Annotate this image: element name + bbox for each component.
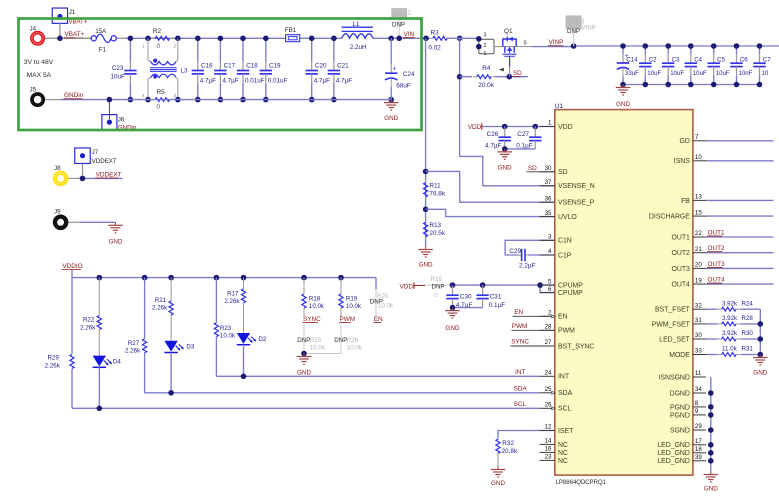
svg-text:4.7µF: 4.7µF [314, 78, 330, 85]
wire [45, 99, 60, 101]
svg-text:EN: EN [558, 314, 568, 321]
svg-text:4.7µF: 4.7µF [336, 78, 352, 85]
svg-text:GND: GND [384, 115, 398, 122]
connector J7 [75, 148, 91, 164]
svg-text:OUT4: OUT4 [672, 282, 691, 289]
capacitor C29 [519, 254, 522, 256]
svg-text:2.26k: 2.26k [224, 298, 240, 305]
junction [423, 169, 429, 175]
svg-text:SGND: SGND [670, 427, 690, 434]
wire VINP cap bank bottom rail [623, 84, 760, 86]
svg-text:R26: R26 [347, 337, 359, 344]
svg-text:C7: C7 [763, 57, 771, 64]
capacitor C7 [759, 46, 761, 54]
wire UVLO [426, 209, 555, 216]
wire [170, 278, 172, 301]
wire [453, 307, 483, 309]
svg-text:10.0k: 10.0k [310, 344, 326, 351]
pin 25 SDA stub [540, 392, 555, 394]
wire INT rail [216, 375, 539, 377]
wire [303, 278, 305, 294]
capacitor C18 [242, 38, 244, 61]
wire [215, 278, 217, 323]
resistor R26 DNP wire [304, 325, 341, 354]
svg-text:16: 16 [545, 446, 552, 453]
wire [706, 236, 774, 238]
resistor R20 DNP wire [375, 289, 377, 317]
svg-text:37: 37 [545, 179, 552, 186]
junction [502, 124, 508, 130]
svg-text:C4: C4 [694, 57, 702, 64]
svg-text:FB1: FB1 [285, 27, 297, 34]
svg-text:BST_SYNC: BST_SYNC [558, 343, 594, 350]
pin 39 LED_GND stub [693, 460, 706, 462]
svg-text:7: 7 [695, 134, 699, 141]
svg-text:0.02: 0.02 [428, 44, 441, 51]
svg-text:C21: C21 [337, 63, 349, 70]
wire C1N loop [505, 240, 555, 255]
svg-text:30: 30 [695, 332, 702, 339]
svg-text:J8: J8 [54, 165, 61, 172]
svg-text:1: 1 [548, 120, 552, 127]
svg-text:J5: J5 [30, 87, 37, 94]
pin 37 VSENSE_N stub [540, 185, 555, 187]
junction [708, 412, 714, 418]
pin 17 LED_GND stub [693, 444, 706, 446]
wire [69, 177, 83, 179]
svg-text:R3: R3 [431, 30, 440, 37]
svg-text:VDDEXT: VDDEXT [96, 171, 122, 178]
svg-text:R2: R2 [153, 28, 162, 35]
LED D4 [93, 356, 106, 367]
wire GND rail [710, 377, 712, 472]
resistor R3 [429, 37, 433, 39]
svg-text:R30: R30 [742, 330, 754, 337]
svg-text:2.26k: 2.26k [125, 347, 141, 354]
svg-text:FB: FB [681, 198, 690, 205]
svg-text:VBAT+: VBAT+ [69, 19, 88, 25]
resistor R5 [151, 99, 155, 101]
common-mode choke L3 [147, 38, 149, 60]
svg-text:4.7µF: 4.7µF [200, 78, 216, 85]
wire [447, 37, 479, 39]
svg-text:20.0k: 20.0k [478, 82, 494, 89]
svg-text:33: 33 [695, 348, 702, 355]
junction [128, 36, 134, 42]
wire [340, 278, 342, 294]
svg-text:R31: R31 [742, 346, 754, 353]
wire [460, 76, 472, 78]
svg-text:39: 39 [695, 454, 702, 461]
resistor R31 [718, 354, 722, 356]
junction [168, 275, 174, 281]
wire [495, 76, 528, 78]
svg-text:5: 5 [524, 41, 527, 47]
svg-text:0: 0 [434, 292, 438, 299]
wire [706, 267, 774, 269]
wire bottom rail [60, 99, 391, 101]
svg-text:LED_GND: LED_GND [657, 442, 690, 449]
svg-text:3.92k: 3.92k [722, 330, 738, 337]
svg-text:GND: GND [446, 325, 460, 332]
svg-text:20.5k: 20.5k [429, 230, 445, 237]
capacitor C4 [690, 46, 692, 54]
pin 29 SGND stub [693, 429, 706, 431]
wire [83, 177, 123, 179]
svg-text:3: 3 [483, 33, 486, 39]
wire [706, 283, 774, 285]
svg-text:SCL: SCL [558, 406, 572, 413]
connector J1 [52, 8, 67, 23]
svg-text:C30: C30 [460, 293, 472, 300]
svg-text:OUT2: OUT2 [672, 250, 691, 257]
wire [740, 354, 760, 356]
svg-text:VINP: VINP [581, 25, 595, 32]
svg-text:76.8k: 76.8k [429, 191, 445, 198]
svg-text:10.0k: 10.0k [378, 302, 394, 309]
svg-text:C1N: C1N [558, 238, 572, 245]
junction [301, 275, 307, 281]
resistor R32 [497, 438, 499, 441]
svg-text:C27: C27 [517, 131, 529, 138]
junction [620, 43, 626, 49]
wire [98, 330, 100, 356]
svg-text:VSENSE_P: VSENSE_P [558, 200, 595, 207]
svg-text:+: + [393, 66, 397, 73]
pin 33 MODE stub [693, 354, 706, 356]
junction [711, 43, 717, 49]
junction [145, 36, 151, 42]
wire SDA rail [145, 392, 540, 394]
wire [706, 252, 774, 254]
pin 2 EN stub [540, 315, 555, 317]
svg-text:R17: R17 [227, 291, 239, 298]
wire [540, 285, 555, 293]
svg-text:2.26k: 2.26k [45, 363, 61, 370]
wire [82, 164, 84, 179]
wire [706, 323, 718, 325]
capacitor C30 [452, 285, 454, 286]
wire top rail after L1 [373, 37, 429, 39]
svg-text:NC: NC [558, 458, 568, 465]
svg-text:C24: C24 [403, 71, 415, 78]
svg-text:10: 10 [695, 154, 702, 161]
wire [80, 221, 116, 223]
inductor L1 [342, 26, 373, 28]
svg-text:18: 18 [695, 446, 702, 453]
svg-text:24: 24 [545, 370, 552, 377]
transistor Q1 pin bracket [479, 39, 494, 54]
svg-text:3.92k: 3.92k [722, 315, 738, 322]
svg-text:3V to 48V: 3V to 48V [24, 59, 54, 66]
svg-text:0.01uF: 0.01uF [268, 78, 288, 85]
wire [170, 353, 172, 393]
svg-text:NC: NC [558, 442, 568, 449]
junction [688, 43, 694, 49]
svg-text:C1P: C1P [558, 252, 572, 259]
svg-text:R23: R23 [220, 325, 232, 332]
junction [758, 321, 764, 327]
transistor Q1 [503, 39, 516, 46]
svg-text:LED_GND: LED_GND [657, 450, 690, 457]
LED D3 [164, 341, 177, 352]
pin 35 UVLO stub [540, 216, 555, 218]
capacitor C17 [219, 38, 221, 61]
svg-text:GND: GND [616, 101, 630, 108]
svg-text:C6: C6 [740, 57, 748, 64]
wire [398, 18, 400, 38]
junction [708, 390, 714, 396]
svg-text:PWM: PWM [340, 316, 356, 323]
wire [144, 278, 146, 339]
junction [450, 282, 456, 288]
svg-text:SDA: SDA [558, 390, 573, 397]
pin 3 C1N stub [540, 239, 555, 241]
capacitor C23 [129, 38, 131, 61]
pin 31 PWM_FSET stub [693, 323, 706, 325]
svg-text:0: 0 [157, 103, 161, 110]
svg-text:C29: C29 [509, 248, 521, 255]
ground [759, 355, 761, 358]
pin 8 PGND stub [693, 406, 706, 408]
wire [706, 199, 774, 201]
ground [497, 467, 499, 470]
resistor R27 [143, 339, 147, 353]
svg-text:PWM_FSET: PWM_FSET [652, 321, 691, 328]
op-amp U1 LP8864QDCPRQ1 body [555, 110, 693, 476]
svg-text:SYNC: SYNC [511, 339, 529, 346]
svg-text:OUT1: OUT1 [672, 234, 691, 241]
svg-text:4.7µF: 4.7µF [222, 78, 238, 85]
wire [706, 160, 774, 162]
svg-text:2.26k: 2.26k [152, 305, 168, 312]
svg-text:VDD: VDD [400, 284, 414, 291]
svg-text:ISNS: ISNS [674, 158, 690, 165]
svg-text:C2: C2 [649, 57, 657, 64]
wire FSET gnd rail [759, 309, 761, 354]
resistor R13 [425, 219, 427, 223]
resistor R30 [718, 338, 722, 340]
svg-text:OUT1: OUT1 [708, 229, 725, 236]
svg-text:14: 14 [545, 438, 552, 445]
pin 23 NC stub [540, 459, 555, 461]
junction [450, 305, 456, 311]
junction [708, 404, 714, 410]
capacitor C6 [736, 46, 738, 54]
wire [243, 303, 245, 333]
svg-text:10uF: 10uF [716, 70, 730, 77]
junction [214, 275, 220, 281]
svg-text:R13: R13 [429, 222, 441, 229]
resistor R28 [718, 323, 722, 325]
junction [643, 43, 649, 49]
svg-text:10uF: 10uF [110, 74, 125, 81]
junction [57, 36, 63, 42]
svg-text:12: 12 [545, 424, 552, 431]
ground [390, 100, 392, 103]
ground [710, 472, 712, 475]
svg-text:J6: J6 [118, 116, 125, 123]
ground [452, 308, 454, 311]
svg-text:10.0k: 10.0k [347, 344, 363, 351]
wire [706, 338, 718, 340]
wire [706, 308, 718, 310]
svg-text:34: 34 [695, 386, 702, 393]
pin 7 GD stub [693, 140, 706, 142]
junction [708, 450, 714, 456]
svg-text:CPUMP: CPUMP [558, 283, 583, 290]
svg-text:2.2uH: 2.2uH [350, 44, 367, 51]
svg-text:10.0k: 10.0k [220, 332, 236, 339]
svg-text:0: 0 [157, 43, 161, 50]
svg-text:15A: 15A [95, 28, 107, 35]
svg-text:2.26k: 2.26k [80, 325, 96, 332]
svg-text:SYNC: SYNC [303, 316, 321, 323]
resistor R25 DNP wire [303, 325, 305, 354]
junction [734, 43, 740, 49]
svg-text:GND: GND [491, 480, 505, 487]
svg-text:C5: C5 [717, 57, 725, 64]
svg-text:R24: R24 [742, 300, 754, 307]
svg-text:25: 25 [545, 386, 552, 393]
svg-text:21: 21 [695, 246, 702, 253]
svg-text:13: 13 [695, 194, 702, 201]
net SD at pin [527, 171, 555, 173]
fuse F1 [75, 37, 91, 39]
svg-text:10.0k: 10.0k [346, 303, 362, 310]
junction [168, 390, 174, 396]
svg-text:SCL: SCL [514, 401, 527, 408]
wire VDDIO rail [72, 270, 376, 278]
svg-text:2: 2 [408, 10, 412, 17]
svg-text:C26: C26 [487, 131, 499, 138]
svg-text:GND: GND [704, 486, 718, 493]
svg-text:DNP: DNP [297, 337, 310, 344]
svg-text:DNP: DNP [392, 21, 405, 28]
svg-text:VDDIO: VDDIO [62, 263, 82, 270]
svg-text:4: 4 [548, 248, 552, 255]
svg-text:27: 27 [545, 339, 552, 346]
wire VSENSE_P [426, 171, 555, 202]
svg-text:C16: C16 [201, 63, 213, 70]
svg-text:30: 30 [545, 165, 552, 172]
ground [425, 247, 427, 250]
junction [571, 43, 577, 49]
pin 36 VSENSE_P stub [540, 201, 555, 203]
junction [388, 36, 394, 42]
pin 30 SD stub [540, 171, 555, 173]
pin 28 PWM stub [540, 329, 555, 331]
pin 15 DISCHARGE stub [693, 215, 706, 217]
wire [573, 29, 575, 46]
svg-text:C17: C17 [224, 63, 236, 70]
junction [218, 36, 224, 42]
connector J5 [30, 92, 45, 107]
connector J9 [53, 215, 69, 231]
net PWM at pin [512, 329, 555, 331]
connector J3 DNP [566, 15, 582, 29]
wire top rail [126, 37, 342, 39]
svg-text:OUT2: OUT2 [708, 245, 725, 252]
svg-text:OUT3: OUT3 [708, 261, 725, 268]
pin 5 CPUMP stub [540, 284, 555, 286]
svg-text:0.1µF: 0.1µF [489, 302, 506, 309]
pin 1 VDD stub [540, 126, 555, 128]
LED D2 [237, 333, 250, 344]
svg-text:29: 29 [695, 423, 702, 430]
wire [45, 37, 91, 39]
svg-text:PGND: PGND [670, 412, 690, 419]
resistor R2 [151, 37, 155, 39]
junction [240, 36, 246, 42]
connector J4 [30, 31, 45, 46]
svg-text:NC: NC [558, 450, 568, 457]
wire [98, 278, 100, 316]
wire VSENSE_N [460, 156, 555, 185]
arrow mark [499, 68, 504, 72]
pin 19 OUT4 stub [693, 283, 706, 285]
svg-text:C18: C18 [246, 63, 258, 70]
svg-text:11: 11 [695, 370, 702, 377]
wire [740, 323, 760, 325]
svg-text:2.2µF: 2.2µF [519, 262, 536, 269]
svg-text:LED_SET: LED_SET [659, 336, 690, 343]
wire [303, 308, 305, 316]
junction [107, 97, 113, 103]
junction [665, 43, 671, 49]
wire [243, 345, 245, 377]
resistor R18 [302, 294, 306, 308]
svg-text:J4: J4 [30, 26, 37, 33]
resistor R22 [97, 316, 101, 330]
connector J8 [53, 171, 69, 187]
svg-text:LED_GND: LED_GND [657, 458, 690, 465]
svg-text:R32: R32 [502, 440, 514, 447]
net SYNC at pin [511, 345, 555, 347]
svg-text:10nF: 10nF [739, 70, 753, 77]
junction [338, 275, 344, 281]
svg-text:8: 8 [695, 400, 699, 407]
svg-text:23: 23 [545, 454, 552, 461]
svg-text:3.92k: 3.92k [722, 300, 738, 307]
wire [505, 148, 536, 150]
resistor R4 [473, 76, 477, 78]
connector J2 DNP [391, 8, 407, 18]
svg-text:C20: C20 [315, 63, 327, 70]
capacitor C21 [333, 38, 335, 61]
pin 16 NC stub [540, 451, 555, 453]
svg-text:10: 10 [762, 70, 769, 77]
capacitor C19 [265, 38, 267, 61]
junction [502, 146, 508, 152]
junction [263, 36, 269, 42]
svg-text:VBAT+: VBAT+ [65, 31, 85, 38]
junction [708, 427, 714, 433]
svg-text:LP8864QDCPRQ1: LP8864QDCPRQ1 [556, 480, 607, 486]
junction [757, 43, 763, 49]
wire CPUMP [453, 284, 555, 286]
junction [331, 36, 337, 42]
capacitor C27 [534, 127, 536, 129]
svg-text:VIN: VIN [404, 31, 415, 38]
svg-text:20: 20 [695, 262, 702, 269]
pin 11 ISNSGND stub [693, 376, 706, 378]
capacitor C26 [504, 127, 506, 129]
svg-text:C14: C14 [626, 57, 638, 64]
junction [301, 351, 307, 357]
wire ISET [498, 431, 555, 439]
junction [142, 275, 148, 281]
